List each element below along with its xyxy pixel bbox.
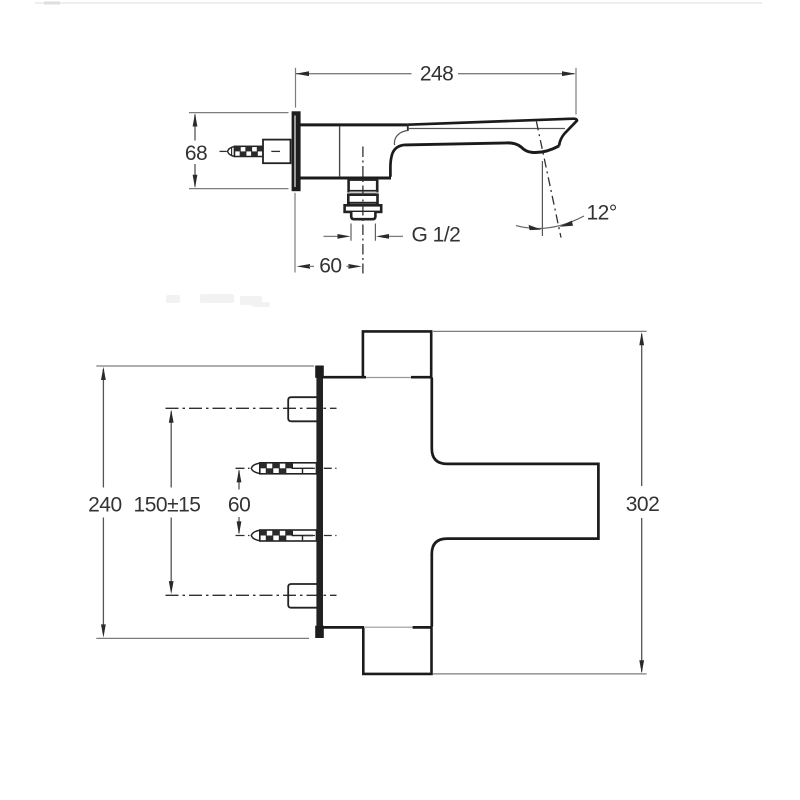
fixing centerline top (dash-dot) xyxy=(166,407,337,409)
dimension 68: top arrowhead xyxy=(193,113,198,126)
screw anchor bottom (plan view) xyxy=(236,530,337,541)
dimension 60 (lower): bottom arrowhead xyxy=(237,521,242,534)
dimension 248: right arrowhead xyxy=(562,71,576,76)
screw anchor top (plan view) xyxy=(236,463,337,474)
G 1/2 fitting: gray separator 2 xyxy=(350,203,376,205)
dimension 60 (upper): right arrowhead and line xyxy=(348,264,361,269)
dimension 302: extension line bottom xyxy=(433,673,647,675)
dimension 302: bottom arrowhead xyxy=(639,660,644,673)
dimension 150±15: bottom arrowhead xyxy=(169,581,174,594)
valve body (plan view): top edge thick segments xyxy=(323,376,366,379)
svg-text:248: 248 xyxy=(420,63,454,86)
wall screw (side view): centerline dash left xyxy=(220,150,227,152)
dimension 240: extension line top xyxy=(96,365,314,367)
dimension 240: dimension line xyxy=(102,369,104,634)
dimension 240: top arrowhead xyxy=(101,367,106,380)
dimension 68: extension line bottom xyxy=(189,188,289,190)
spout arm: junction tick xyxy=(407,124,409,131)
dimension 248: extension line right xyxy=(575,68,577,115)
valve body (plan view): bottom edge hidden thin segment xyxy=(364,626,413,628)
spout body block: top edge xyxy=(301,123,408,126)
G 1/2 fitting: thread band 1 xyxy=(349,180,378,192)
svg-text:240: 240 xyxy=(88,493,122,516)
G 1/2 fitting: thread band 2 xyxy=(348,195,377,203)
escutcheon plate (edge view) xyxy=(315,366,324,639)
dimension 68: extension line top xyxy=(189,112,289,114)
angle 12: slanted dash-dot line xyxy=(536,122,561,238)
G 1/2 fitting: gray separator 1 xyxy=(350,192,377,194)
dimension 150±15: top arrowhead xyxy=(169,410,174,423)
wall screw (side view): pointed tip xyxy=(228,146,235,156)
dimension 248: dimension line xyxy=(296,73,575,75)
dimension 302: top arrowhead xyxy=(639,332,644,345)
svg-text:68: 68 xyxy=(185,142,207,165)
dimension 60 (upper): left arrowhead and line xyxy=(297,264,311,269)
dimension 240: bottom arrowhead xyxy=(101,624,106,637)
svg-text:60: 60 xyxy=(228,494,250,517)
G 1/2 fitting: collar xyxy=(345,205,382,212)
dimension 60 (lower): dimension line xyxy=(238,471,240,534)
spout body block: bottom edge xyxy=(301,177,392,180)
spout arm: underside xyxy=(405,143,507,145)
svg-text:150±15: 150±15 xyxy=(134,493,201,516)
dimension 302: dimension line xyxy=(641,334,643,672)
dimension 240: extension line bottom xyxy=(96,637,309,639)
spout arm: mouth lower lip xyxy=(507,143,559,153)
valve body (plan view): bottom edge thick segments xyxy=(323,626,364,629)
spout body block: internal vertical edge xyxy=(339,126,341,177)
faint top border line xyxy=(35,2,762,4)
dimension 248: left arrowhead xyxy=(296,71,310,76)
dimension 150±15: dimension line xyxy=(170,412,172,592)
G 1/2 fitting: nozzle xyxy=(351,212,375,219)
fixing boss top xyxy=(288,397,316,421)
valve body and spout silhouette (right outline) xyxy=(430,377,598,627)
top inlet box xyxy=(363,331,431,376)
dimension G 1/2: dimension line right with arrowhead xyxy=(389,235,404,237)
dimension 60 (lower): top arrowhead xyxy=(237,469,242,482)
angle 12: left arrowhead on arc xyxy=(529,225,542,230)
fixing boss bottom xyxy=(288,584,316,608)
dimension 60 (upper): extension line below flange xyxy=(294,193,296,273)
fixing centerline bottom (dash-dot) xyxy=(166,594,337,596)
wall flange (side view) xyxy=(292,111,301,191)
spout arm: top surface inner edge xyxy=(409,128,565,130)
fitting vertical centerline (dash-dot) xyxy=(362,147,364,274)
svg-text:12°: 12° xyxy=(587,202,617,225)
valve body (plan view): top edge hidden thin segment xyxy=(366,377,411,379)
faint watermark smudge xyxy=(166,294,270,307)
dimension 68: dimension line xyxy=(194,115,196,187)
angle 12: arc xyxy=(516,216,584,228)
angle 12: vertical reference line xyxy=(541,161,543,236)
dimension G 1/2: dimension line left with arrowhead xyxy=(324,235,339,237)
angle 12: right arrowhead on arc xyxy=(560,221,574,227)
dimension 302: extension line top xyxy=(433,330,647,332)
wall screw (side view): threaded shank with hatch cells xyxy=(235,146,264,156)
dimension G 1/2: extension lines xyxy=(351,224,375,241)
spout arm: inner fillet at junction xyxy=(394,131,407,146)
spout arm: top outline rising to tip xyxy=(408,119,577,146)
spout body: rear lower curve xyxy=(390,145,405,177)
wall screw (side view): centerline dash inside sleeve xyxy=(271,150,280,152)
wall screw (side view): anchor sleeve xyxy=(263,140,291,164)
bottom inlet box xyxy=(363,628,431,674)
svg-text:302: 302 xyxy=(626,493,660,516)
dimension 248: extension line left xyxy=(295,68,297,108)
dimension 68: bottom arrowhead xyxy=(193,175,198,188)
svg-text:60: 60 xyxy=(319,255,341,278)
svg-text:G 1/2: G 1/2 xyxy=(412,223,461,246)
